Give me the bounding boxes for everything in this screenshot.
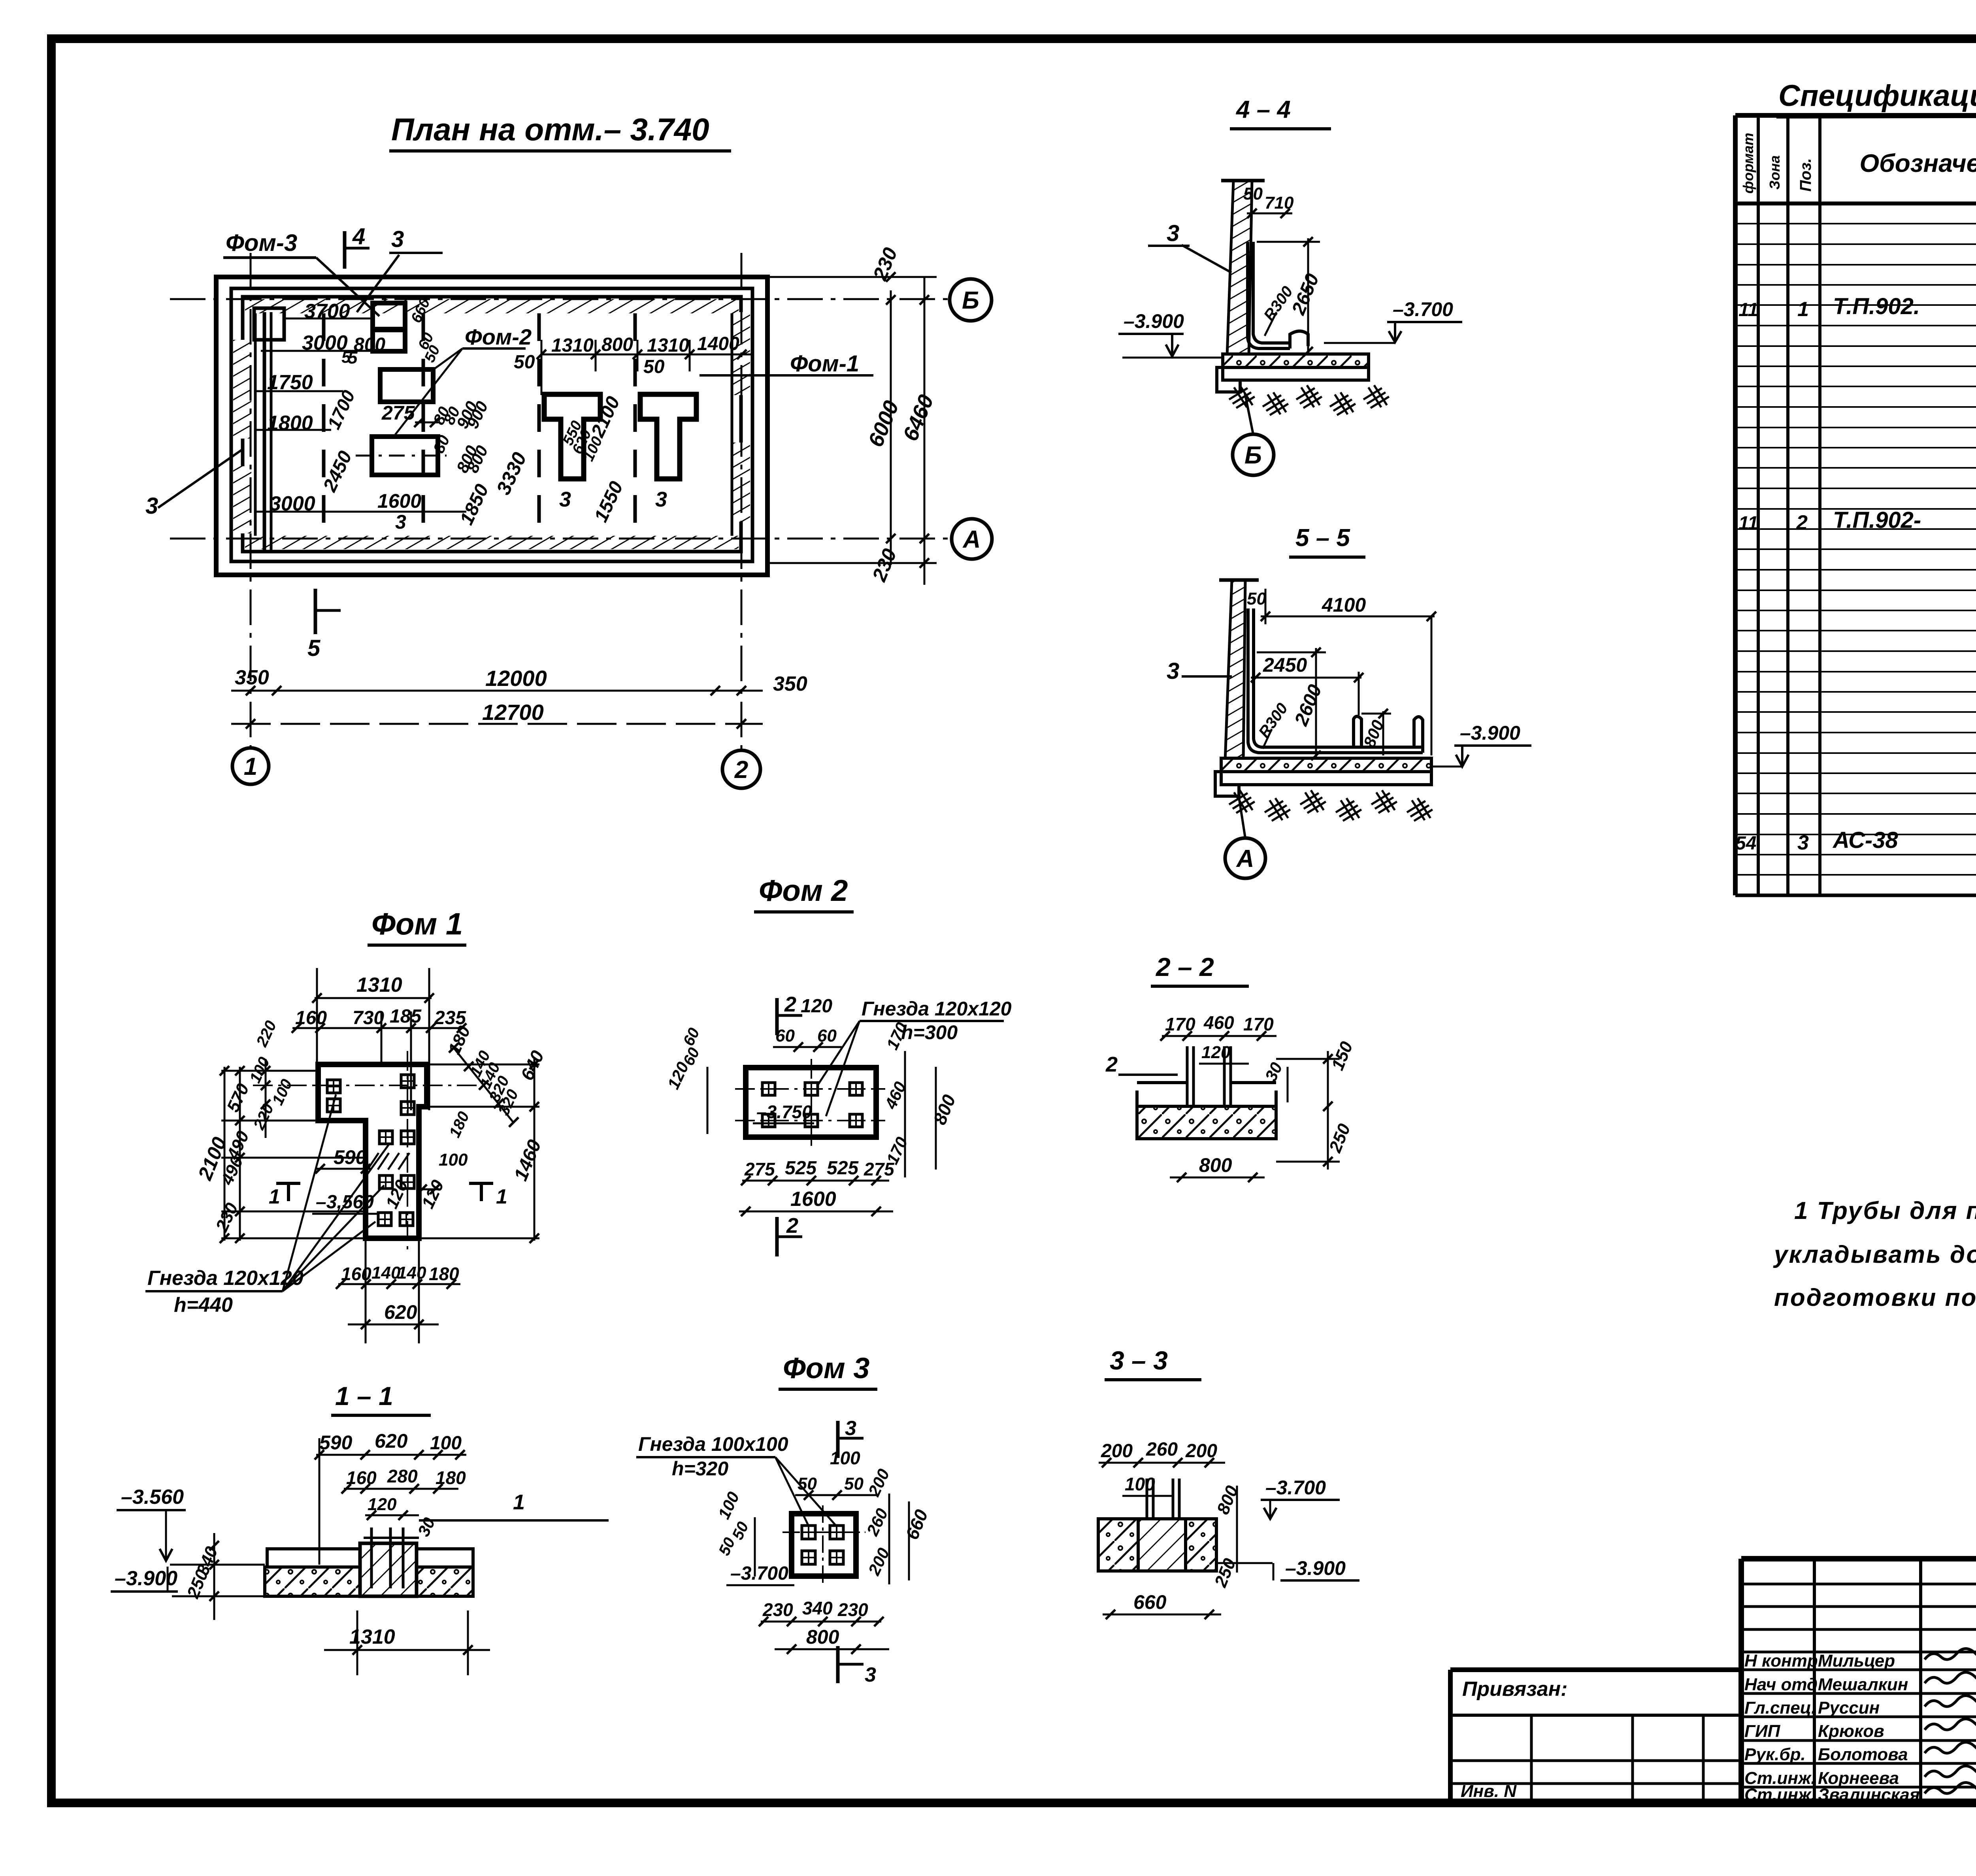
svg-text:1310: 1310 [356, 974, 402, 996]
svg-text:2: 2 [1796, 511, 1808, 534]
svg-text:–3,560: –3,560 [316, 1192, 374, 1213]
svg-text:–3.700: –3.700 [730, 1563, 788, 1584]
svg-text:–3.900: –3.900 [1124, 310, 1184, 332]
svg-text:–3.700: –3.700 [1393, 298, 1453, 320]
svg-text:Фом-1: Фом-1 [790, 351, 859, 377]
svg-text:–3.700: –3.700 [1265, 1477, 1326, 1499]
svg-text:2: 2 [784, 993, 796, 1016]
svg-text:Звалинская: Звалинская [1818, 1785, 1920, 1804]
svg-text:1: 1 [513, 1490, 525, 1514]
svg-text:5 – 5: 5 – 5 [1295, 524, 1350, 552]
svg-text:–3.900: –3.900 [1460, 722, 1520, 744]
svg-text:460: 460 [1203, 1012, 1234, 1033]
svg-text:2: 2 [786, 1214, 798, 1237]
svg-text:Гнезда 120х120: Гнезда 120х120 [862, 998, 1012, 1020]
svg-text:Обозначение: Обозначение [1859, 149, 1976, 177]
svg-text:50: 50 [1247, 589, 1266, 608]
svg-text:2450: 2450 [1263, 654, 1307, 676]
svg-text:1310: 1310 [647, 335, 689, 356]
svg-text:Фом 2: Фом 2 [759, 874, 848, 908]
svg-text:1800: 1800 [267, 412, 313, 435]
svg-text:1600: 1600 [377, 490, 421, 512]
svg-text:100: 100 [439, 1150, 468, 1170]
svg-text:1: 1 [1797, 298, 1809, 321]
svg-text:50: 50 [798, 1474, 817, 1494]
svg-text:60: 60 [775, 1026, 795, 1045]
svg-text:2: 2 [734, 756, 748, 784]
svg-text:50: 50 [844, 1474, 864, 1494]
svg-text:800: 800 [1199, 1154, 1232, 1176]
svg-text:1310: 1310 [349, 1625, 395, 1648]
svg-text:350: 350 [235, 666, 269, 689]
svg-text:Б: Б [962, 287, 979, 314]
svg-text:620: 620 [384, 1301, 417, 1323]
svg-text:–3.900: –3.900 [1285, 1557, 1346, 1579]
svg-text:340: 340 [802, 1598, 833, 1618]
svg-text:А: А [1236, 845, 1254, 872]
svg-text:Рук.бр.: Рук.бр. [1744, 1745, 1806, 1764]
svg-text:А: А [962, 526, 981, 553]
svg-text:100: 100 [430, 1433, 462, 1454]
svg-text:3: 3 [145, 493, 158, 519]
svg-text:Фом 1: Фом 1 [371, 906, 463, 941]
svg-text:Мешалкин: Мешалкин [1818, 1675, 1908, 1694]
svg-text:730: 730 [353, 1008, 384, 1028]
svg-text:формат: формат [1740, 133, 1756, 194]
svg-text:800: 800 [601, 334, 633, 355]
svg-text:Н контр: Н контр [1744, 1651, 1818, 1671]
svg-text:Фом 3: Фом 3 [783, 1352, 869, 1384]
svg-text:Гнезда 100х100: Гнезда 100х100 [638, 1433, 788, 1455]
svg-text:120: 120 [368, 1495, 397, 1514]
svg-text:ГИП: ГИП [1744, 1722, 1781, 1741]
svg-text:Б: Б [1244, 442, 1262, 469]
svg-text:Инв. N: Инв. N [1461, 1782, 1517, 1801]
svg-text:Болотова: Болотова [1818, 1745, 1908, 1764]
svg-text:Нач отд: Нач отд [1744, 1675, 1818, 1694]
svg-text:4: 4 [352, 224, 365, 249]
svg-text:–3.750: –3.750 [756, 1102, 812, 1122]
svg-text:590: 590 [334, 1146, 367, 1168]
svg-text:1 Трубы для прокладки элек: 1 Трубы для прокладки электрокабеля [1794, 1197, 1976, 1224]
svg-text:Зона: Зона [1767, 155, 1783, 190]
svg-text:4100: 4100 [1322, 594, 1366, 616]
svg-text:120: 120 [801, 996, 832, 1017]
svg-text:3: 3 [391, 226, 404, 252]
svg-text:Поз.: Поз. [1797, 158, 1814, 192]
svg-text:2: 2 [1105, 1053, 1118, 1076]
svg-text:h=440: h=440 [174, 1294, 233, 1317]
svg-text:1 – 1: 1 – 1 [335, 1381, 393, 1411]
svg-text:–3.560: –3.560 [121, 1486, 184, 1509]
svg-text:Привязан:: Привязан: [1462, 1678, 1567, 1701]
svg-text:2 – 2: 2 – 2 [1155, 952, 1214, 981]
svg-text:Мильцер: Мильцер [1818, 1651, 1895, 1671]
svg-text:3: 3 [1797, 831, 1809, 854]
svg-text:Т.П.902-: Т.П.902- [1833, 507, 1921, 533]
svg-text:Руссин: Руссин [1818, 1698, 1880, 1718]
svg-text:160: 160 [341, 1264, 371, 1284]
svg-text:1600: 1600 [790, 1188, 836, 1211]
svg-text:подготовки под чистые полы.: подготовки под чистые полы. [1774, 1284, 1976, 1311]
svg-text:11: 11 [1738, 513, 1758, 534]
svg-text:525: 525 [785, 1158, 817, 1179]
svg-text:620: 620 [375, 1430, 408, 1452]
svg-text:1: 1 [244, 753, 257, 780]
svg-text:Гл.спец.: Гл.спец. [1744, 1698, 1816, 1718]
svg-text:3: 3 [865, 1663, 876, 1686]
svg-text:12700: 12700 [482, 700, 544, 725]
svg-text:1: 1 [269, 1185, 280, 1208]
svg-text:60: 60 [817, 1026, 837, 1045]
svg-text:3 – 3: 3 – 3 [1110, 1346, 1168, 1375]
svg-text:185: 185 [390, 1006, 422, 1027]
svg-text:350: 350 [773, 672, 807, 695]
svg-text:800: 800 [806, 1626, 839, 1648]
svg-text:200: 200 [1101, 1441, 1133, 1462]
svg-text:54: 54 [1735, 833, 1756, 854]
svg-text:1310: 1310 [551, 335, 594, 356]
svg-text:140: 140 [371, 1263, 401, 1283]
svg-text:h=320: h=320 [672, 1458, 728, 1480]
svg-text:укладывать до устройства б: укладывать до устройства бетонной [1773, 1241, 1976, 1268]
svg-text:230: 230 [837, 1599, 868, 1620]
svg-text:11: 11 [1738, 299, 1758, 320]
svg-text:h=300: h=300 [901, 1021, 958, 1043]
svg-text:Фом-2: Фом-2 [465, 324, 532, 349]
svg-text:3: 3 [395, 511, 406, 533]
svg-text:Гнезда 120х120: Гнезда 120х120 [147, 1267, 304, 1290]
svg-text:3: 3 [845, 1417, 856, 1440]
svg-text:3: 3 [1167, 658, 1179, 684]
svg-text:5: 5 [307, 635, 321, 661]
svg-text:800: 800 [354, 334, 385, 355]
svg-text:4 – 4: 4 – 4 [1235, 96, 1291, 123]
svg-text:12000: 12000 [485, 666, 547, 691]
svg-text:50: 50 [643, 356, 665, 377]
svg-text:Спецификация элементов эле: Спецификация элементов электрооборудован… [1778, 79, 1976, 113]
svg-text:100: 100 [1125, 1474, 1155, 1494]
svg-text:АС-38: АС-38 [1832, 827, 1898, 853]
svg-text:3: 3 [655, 488, 667, 511]
svg-text:50: 50 [514, 352, 535, 373]
svg-text:260: 260 [1146, 1439, 1178, 1460]
svg-text:100: 100 [830, 1448, 860, 1468]
svg-text:1: 1 [496, 1185, 507, 1208]
svg-text:Фом-3: Фом-3 [226, 230, 297, 256]
svg-text:525: 525 [827, 1158, 859, 1179]
svg-text:Ст.инж.: Ст.инж. [1744, 1785, 1816, 1804]
svg-text:170: 170 [1243, 1014, 1274, 1034]
svg-text:Крюков: Крюков [1818, 1722, 1884, 1741]
svg-text:3: 3 [1167, 220, 1179, 246]
svg-text:План на отм.– 3.740: План на отм.– 3.740 [391, 112, 709, 147]
svg-text:280: 280 [387, 1466, 418, 1486]
svg-text:275: 275 [381, 402, 415, 424]
svg-text:1400: 1400 [697, 333, 739, 354]
svg-text:50: 50 [1243, 184, 1263, 203]
svg-text:120: 120 [1201, 1043, 1231, 1062]
svg-text:660: 660 [1133, 1591, 1167, 1613]
svg-text:Т.П.902.: Т.П.902. [1833, 294, 1920, 319]
svg-text:3: 3 [559, 488, 571, 511]
